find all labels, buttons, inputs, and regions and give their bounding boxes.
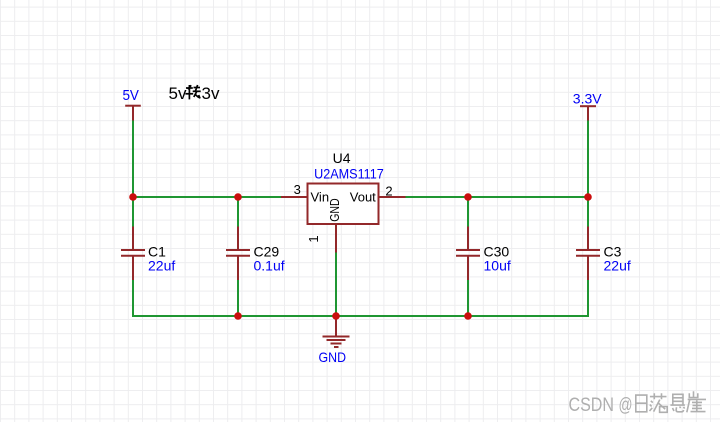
watermark CSDN @日落悬崖 [569,391,707,416]
wire: C29 bottom drop [237,280,239,317]
svg-text:GND: GND [319,349,347,365]
pin 1 stub (GND) [335,225,337,253]
pin 2 stub (Vout) [379,196,406,198]
wire: top rail left segment [132,196,282,198]
svg-text:22uf: 22uf [148,258,175,274]
svg-text:0.1uf: 0.1uf [254,258,285,274]
svg-text:1: 1 [306,235,321,242]
junction dot: C30 / top rail [464,193,472,201]
wire: C29 top drop [237,197,239,227]
svg-text:GND: GND [327,198,342,222]
svg-text:CSDN: CSDN [569,395,615,416]
wire: Vout rail right segment [405,196,589,198]
wire: bottom ground rail [132,315,589,317]
svg-text:Vout: Vout [350,189,376,204]
svg-text:22uf: 22uf [604,258,631,274]
capacitor C3 [576,227,600,281]
svg-text:3: 3 [294,182,301,197]
wire: 3.3V vertical drop to top rail and C3 [587,120,589,228]
wire: C30 bottom drop [467,280,469,317]
junction dot: C30 / bottom rail [464,312,472,320]
wire: C3 bottom drop [587,280,589,317]
op-amp/regulator U4 body [308,184,379,225]
wire: 5V vertical drop to top rail and C1 [132,120,134,228]
svg-text:@: @ [619,395,633,416]
junction dot: C29 / bottom rail [234,312,242,320]
capacitor C29 [226,227,250,281]
ground symbol [323,316,350,347]
svg-text:U4: U4 [333,150,351,166]
svg-text:3.3V: 3.3V [573,91,602,107]
pin 3 stub (Vin) [281,196,308,198]
capacitor C30 [456,227,480,281]
capacitor C1 [121,227,145,281]
svg-text:10uf: 10uf [484,258,511,274]
junction dot: GND / bottom rail [332,312,340,320]
wire: C30 top drop [467,197,469,227]
svg-text:5V: 5V [122,87,139,104]
svg-text:2: 2 [385,184,392,199]
junction dot: 5V / top rail [129,193,137,201]
wire: C1 bottom drop [132,280,134,318]
junction dot: C29 / top rail [234,193,242,201]
junction dot: 3.3V / top rail [584,193,592,201]
svg-text:5v: 5v [169,84,187,103]
svg-text:3v: 3v [202,84,220,103]
title 5v转3v [169,84,220,103]
power port 5V [122,87,140,121]
power port 3.3V [573,91,602,121]
svg-text:U2AMS1117: U2AMS1117 [314,166,384,182]
wire: GND pin drop [335,252,337,316]
